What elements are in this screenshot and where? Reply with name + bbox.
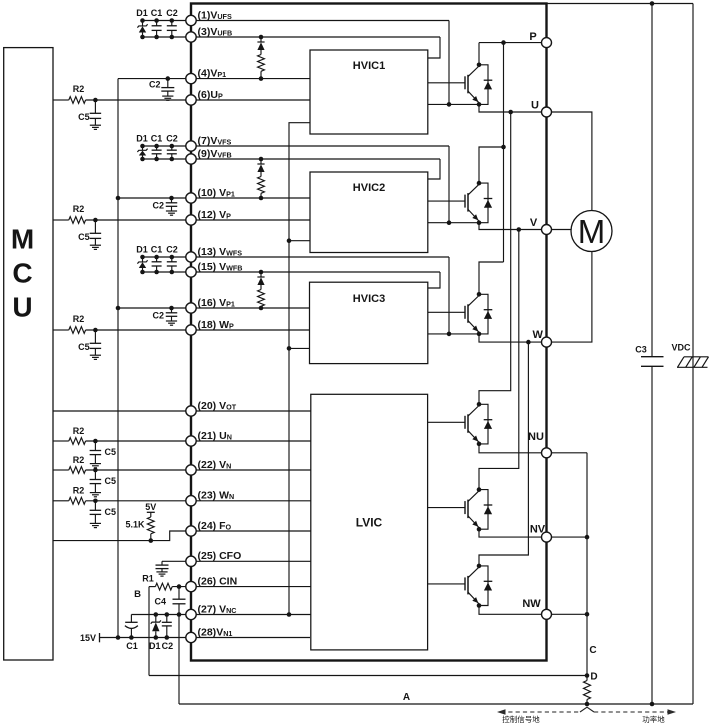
wire D row <box>149 675 587 677</box>
svg-text:功率地: 功率地 <box>642 714 665 724</box>
svg-text:R1: R1 <box>142 574 154 584</box>
diode DVL <box>479 490 488 530</box>
svg-text:R2: R2 <box>73 314 85 324</box>
resistor R2 row 441 <box>69 438 86 445</box>
wire C3 vertical upper <box>651 4 653 357</box>
capacitor C2 boot U <box>171 21 173 26</box>
capacitor C1 boot V <box>156 146 158 150</box>
node boot U x156.6 bottom <box>154 35 159 40</box>
svg-text:(9)VVFB: (9)VVFB <box>198 148 232 160</box>
wire VOT row <box>53 410 311 412</box>
wire V collector feed <box>479 147 504 183</box>
diode DVH <box>479 183 488 223</box>
diode DWH <box>479 294 488 334</box>
wire U low gate row <box>428 421 465 423</box>
wire U low collector feed <box>479 112 511 404</box>
pin 18 terminal <box>186 325 196 335</box>
svg-text:P: P <box>529 31 536 43</box>
pin 13 terminal <box>186 252 196 262</box>
node boot V x171.8 top <box>170 144 175 149</box>
svg-text:(23) WN: (23) WN <box>198 490 235 502</box>
svg-text:D1: D1 <box>149 641 161 651</box>
svg-text:NW: NW <box>522 598 541 610</box>
node P feed <box>501 40 506 45</box>
terminal NU <box>542 448 552 458</box>
pin 3 terminal <box>186 32 196 42</box>
node C2 pin10 <box>169 196 174 201</box>
wire V to motor <box>547 229 572 231</box>
node boot W x142.5 bottom <box>140 270 145 275</box>
svg-text:NU: NU <box>528 431 544 443</box>
svg-text:D1: D1 <box>136 245 148 255</box>
svg-text:(7)VVFS: (7)VVFS <box>198 135 232 147</box>
node boot V x171.8 bottom <box>170 157 175 162</box>
capacitor C4 <box>178 587 180 600</box>
terminal V <box>542 225 552 235</box>
node D <box>585 673 590 678</box>
wire U to motor <box>547 112 592 211</box>
node boot W x171.8 bottom <box>170 270 175 275</box>
node boot U x171.8 top <box>170 18 175 23</box>
MCU block <box>4 48 53 660</box>
resistor R2 row 500.8 <box>69 497 86 504</box>
node COM HVIC3 <box>287 346 292 351</box>
node boot V x156.6 top <box>154 144 159 149</box>
pin 7 terminal <box>186 141 196 151</box>
svg-text:(27) VNC: (27) VNC <box>198 603 237 615</box>
svg-text:C2: C2 <box>166 8 178 18</box>
node boot W x156.6 bottom <box>154 270 159 275</box>
capacitor C5 row 470 <box>94 470 96 480</box>
pin 27 terminal <box>186 609 196 619</box>
svg-text:D1: D1 <box>136 8 148 18</box>
wire W emitter row <box>428 333 479 335</box>
svg-text:C1: C1 <box>126 641 138 651</box>
svg-text:LVIC: LVIC <box>356 516 383 530</box>
diode+resistor bootstrap charge y37 <box>260 37 262 42</box>
diode DWL <box>479 566 488 606</box>
capacitor C2 boot V <box>171 146 173 150</box>
wire P row <box>479 42 547 44</box>
wire N sense row NU <box>547 452 588 454</box>
wire W collector feed <box>479 262 504 294</box>
node VNC COM rail <box>287 612 292 617</box>
wire COM stub HVIC3 <box>289 347 310 349</box>
wire VP1 rail <box>117 79 119 638</box>
pin 15 terminal <box>186 267 196 277</box>
svg-text:C: C <box>12 258 32 289</box>
pin 22 terminal <box>186 465 196 475</box>
node boot U x142.5 top <box>140 18 145 23</box>
svg-text:(26) CIN: (26) CIN <box>198 575 238 587</box>
wire U emitter to terminal <box>479 104 547 112</box>
wire W low collector feed <box>479 342 528 566</box>
wire VNC row <box>131 614 311 616</box>
pin 21 terminal <box>186 436 196 446</box>
resistor R2 row 220 <box>69 217 86 224</box>
node charge bottom y198 <box>259 196 264 201</box>
capacitor C2 boot W <box>171 257 173 262</box>
wire row y441 MCU to LVIC <box>53 440 69 442</box>
svg-text:C: C <box>589 645 596 656</box>
node charge top y272 <box>259 270 264 275</box>
diode DUH <box>479 65 488 105</box>
wire U FS drop <box>448 21 450 105</box>
diode DUL <box>479 404 488 444</box>
svg-text:HVIC1: HVIC1 <box>353 60 385 72</box>
svg-text:C1: C1 <box>151 134 163 144</box>
node R1 to C4 <box>177 584 182 589</box>
pin 28 terminal <box>186 632 196 642</box>
terminal P <box>542 38 552 48</box>
capacitor C1 polarized <box>130 615 132 623</box>
transistor QWH <box>464 306 466 319</box>
svg-text:A: A <box>403 692 410 703</box>
svg-text:C3: C3 <box>635 345 647 355</box>
node R2/C5 row 441 <box>93 439 98 444</box>
svg-text:(12) VP: (12) VP <box>198 209 232 221</box>
wire row y100 MCU to module <box>53 99 69 101</box>
node W output tap <box>526 340 531 345</box>
zener D1 bottom <box>155 615 157 623</box>
wire V low collector feed <box>479 230 519 490</box>
transistor QUH <box>464 76 466 89</box>
svg-text:D1: D1 <box>136 134 148 144</box>
svg-text:R2: R2 <box>73 455 85 465</box>
node R2/C5 row 100 <box>93 98 98 103</box>
diode+resistor bootstrap charge y272 <box>260 272 262 277</box>
op-amp U3 HVIC3 box <box>310 282 428 363</box>
svg-text:(15) VWFB: (15) VWFB <box>198 261 243 273</box>
pin 20 terminal <box>186 406 196 416</box>
capacitor C5 row 220 <box>94 220 96 233</box>
node charge top y159 <box>259 157 264 162</box>
svg-text:C2: C2 <box>152 311 164 321</box>
capacitor C2 pin4 <box>167 79 169 88</box>
wire VDC vertical <box>692 4 694 705</box>
svg-text:R2: R2 <box>73 486 85 496</box>
svg-text:C5: C5 <box>105 476 117 486</box>
svg-text:(4)VP1: (4)VP1 <box>198 67 227 79</box>
svg-text:(18) WP: (18) WP <box>198 319 235 331</box>
node boot V x142.5 bottom <box>140 157 145 162</box>
node C3 tap on P rail <box>650 1 655 6</box>
wire W FB loop <box>428 272 440 288</box>
node C2 pin16 <box>169 306 174 311</box>
node boot W x156.6 top <box>154 255 159 260</box>
ground split dashed <box>501 711 672 713</box>
svg-text:U: U <box>531 100 539 112</box>
wire motor to W <box>547 252 592 343</box>
transistor QWL <box>464 577 466 590</box>
wire VP1 pin16 row <box>118 307 310 309</box>
node C2 bottom2 <box>165 635 170 640</box>
op-amp U2 HVIC2 box <box>310 172 428 253</box>
wire row y330 MCU to module <box>53 329 69 331</box>
capacitor CFO to ground <box>161 561 163 565</box>
wire W FS drop <box>448 257 450 334</box>
node V output tap <box>517 227 522 232</box>
svg-text:C5: C5 <box>78 342 90 352</box>
node boot V x142.5 top <box>140 144 145 149</box>
wire U gate row <box>428 82 465 84</box>
svg-text:C5: C5 <box>105 447 117 457</box>
wire VP1 pin10 row <box>118 197 310 199</box>
transistor QUL <box>464 416 466 429</box>
resistor 5.1K <box>147 517 154 534</box>
terminal NV <box>542 532 552 542</box>
IPM module outline <box>191 4 547 661</box>
wire U FB loop <box>428 37 440 58</box>
wire U emitter row <box>428 103 479 105</box>
node shunt to A <box>585 702 590 707</box>
wire B vertical <box>148 587 150 676</box>
pin 16 terminal <box>186 303 196 313</box>
wire N sense vertical <box>586 453 588 676</box>
svg-text:(10) VP1: (10) VP1 <box>198 187 235 199</box>
wire V FB loop <box>428 159 440 179</box>
wire COM rail <box>289 123 310 615</box>
node VP1 pin10 <box>116 196 121 201</box>
capacitor C5 row 500.8 <box>94 501 96 511</box>
zener D1 boot U <box>142 21 144 26</box>
svg-text:M: M <box>578 213 606 250</box>
node boot W x171.8 top <box>170 255 175 260</box>
node VP1 pin16 <box>116 306 121 311</box>
svg-text:V: V <box>530 217 538 229</box>
node C4 bottom <box>177 612 182 617</box>
pin 1 terminal <box>186 15 196 25</box>
svg-text:控制信号地: 控制信号地 <box>502 714 540 724</box>
node W FS join <box>447 332 452 337</box>
wire NW extension <box>547 613 588 615</box>
node charge bottom y78.6 <box>259 76 264 81</box>
wire V low gate row <box>428 507 465 509</box>
zener D1 boot V <box>142 146 144 150</box>
wire U collector feed <box>478 43 480 65</box>
wire V FS drop <box>448 146 450 223</box>
node R2/C5 row 220 <box>93 218 98 223</box>
pin 12 terminal <box>186 215 196 225</box>
wire W FS rail <box>143 256 450 258</box>
svg-text:HVIC2: HVIC2 <box>353 182 385 194</box>
svg-text:C1: C1 <box>151 8 163 18</box>
resistor R2 row 330 <box>69 327 86 334</box>
wire W low emitter to terminal <box>479 606 547 615</box>
svg-text:C2: C2 <box>166 134 178 144</box>
node R2/C5 row 500.8 <box>93 499 98 504</box>
wire W emitter to terminal <box>479 334 547 342</box>
terminal NW <box>542 609 552 619</box>
svg-text:NV: NV <box>530 524 546 536</box>
op-amp U1 HVIC1 box <box>310 50 428 134</box>
svg-text:B: B <box>134 589 141 600</box>
capacitor C3 <box>641 356 664 358</box>
svg-text:C5: C5 <box>105 507 117 517</box>
node C3 to A <box>650 702 655 707</box>
wire V FS rail <box>143 145 450 147</box>
svg-text:(22) VN: (22) VN <box>198 459 232 471</box>
wire U low emitter to terminal <box>479 444 547 453</box>
wire W FB rail <box>143 271 441 273</box>
node C2 top <box>165 612 170 617</box>
svg-text:C1: C1 <box>151 245 163 255</box>
capacitor C5 row 330 <box>94 330 96 343</box>
wire V gate row <box>428 200 465 202</box>
wire V FB rail <box>143 158 441 160</box>
wire COM stub HVIC2 <box>289 240 310 242</box>
resistor R1 <box>155 583 172 590</box>
svg-text:(1)VUFS: (1)VUFS <box>198 9 232 21</box>
transistor QVH <box>464 195 466 208</box>
svg-text:C5: C5 <box>78 112 90 122</box>
svg-text:R2: R2 <box>73 204 85 214</box>
pin 6 terminal <box>186 95 196 105</box>
wire V emitter row <box>428 222 479 224</box>
svg-text:C2: C2 <box>152 201 164 211</box>
wire CIN row <box>149 586 155 588</box>
node R2/C5 row 470 <box>93 468 98 473</box>
svg-text:(21) UN: (21) UN <box>198 430 232 442</box>
pin 9 terminal <box>186 154 196 164</box>
node COM HVIC2 <box>287 238 292 243</box>
svg-text:U: U <box>12 292 32 323</box>
svg-text:(13) VWFS: (13) VWFS <box>198 246 243 258</box>
svg-text:(16) VP1: (16) VP1 <box>198 297 235 309</box>
wire FO jog <box>53 531 311 541</box>
capacitor C1 boot W <box>156 257 158 262</box>
node U output tap <box>508 110 513 115</box>
svg-text:(28)VN1: (28)VN1 <box>198 626 233 638</box>
node boot U x171.8 bottom <box>170 35 175 40</box>
wire U FS rail <box>143 20 450 22</box>
svg-text:VDC: VDC <box>671 343 691 353</box>
capacitor C5 row 100 <box>94 100 96 113</box>
pin 23 terminal <box>186 496 196 506</box>
wire row y470 MCU to LVIC <box>53 469 69 471</box>
transistor QVL <box>464 501 466 514</box>
pin 26 terminal <box>186 581 196 591</box>
node V FS join <box>447 220 452 225</box>
resistor R2 row 470 <box>69 467 86 474</box>
svg-text:5V: 5V <box>145 502 156 512</box>
svg-text:5.1K: 5.1K <box>125 520 145 530</box>
svg-text:M: M <box>11 224 34 255</box>
wire CFO row <box>162 560 311 562</box>
node charge top y37 <box>259 35 264 40</box>
node D1 bottom2 <box>154 635 159 640</box>
capacitor C1 boot U <box>156 21 158 26</box>
pin 24 terminal <box>186 526 196 536</box>
wire A vertical <box>178 615 180 705</box>
op-amp U4 LVIC box <box>311 394 428 650</box>
zener D1 boot W <box>142 257 144 262</box>
wire row y500.8 MCU to LVIC <box>53 500 69 502</box>
node boot U x156.6 top <box>154 18 159 23</box>
node R2/C5 row 330 <box>93 328 98 333</box>
motor M <box>571 211 612 252</box>
capacitor C5 row 441 <box>94 441 96 451</box>
pin 25 terminal <box>186 556 196 566</box>
svg-text:C5: C5 <box>78 232 90 242</box>
node C1 bottom <box>129 635 134 640</box>
wire U FB rail <box>143 36 441 38</box>
wire 15V row <box>100 637 311 639</box>
wire row y220 MCU to module <box>53 219 69 221</box>
svg-text:R2: R2 <box>73 426 85 436</box>
node 5.1K bottom <box>149 538 154 543</box>
node boot V x156.6 bottom <box>154 157 159 162</box>
wire P rail to VDC <box>547 3 694 5</box>
node D1 top <box>154 612 159 617</box>
diode+resistor bootstrap charge y159 <box>260 159 262 164</box>
node C2 pin4 <box>166 76 171 81</box>
wire V low emitter to terminal <box>479 529 547 537</box>
node charge bottom y308 <box>259 306 264 311</box>
wire V emitter to terminal <box>479 223 547 230</box>
terminal W <box>542 337 552 347</box>
supply 5V tick <box>147 511 155 513</box>
wire A row <box>179 703 693 705</box>
svg-text:(20) VOT: (20) VOT <box>198 400 237 412</box>
svg-text:HVIC3: HVIC3 <box>353 293 385 305</box>
node U FS join <box>447 102 452 107</box>
node NV sense <box>585 535 590 540</box>
svg-text:(6)UP: (6)UP <box>198 89 223 101</box>
capacitor C2 bottom <box>166 615 168 623</box>
node VP1 rail join <box>116 635 121 640</box>
capacitor C2 pin10 <box>171 198 173 203</box>
wire VP1 pin4 row <box>118 78 310 80</box>
svg-text:(24) FO: (24) FO <box>198 520 232 532</box>
svg-text:C2: C2 <box>162 641 174 651</box>
node boot U x142.5 bottom <box>140 35 145 40</box>
svg-text:D: D <box>590 672 597 683</box>
resistor R2 row 100 <box>69 97 86 104</box>
wire NV extension <box>547 536 588 538</box>
wire W gate row <box>428 311 465 313</box>
pin 10 terminal <box>186 193 196 203</box>
wire P feed rail <box>503 43 505 262</box>
svg-text:C4: C4 <box>154 597 166 607</box>
svg-text:15V: 15V <box>80 633 96 643</box>
supply 15V tick <box>99 633 101 642</box>
svg-text:C2: C2 <box>149 80 161 90</box>
ground hatch VDC <box>677 366 708 368</box>
svg-text:W: W <box>533 329 544 341</box>
svg-text:(25) CFO: (25) CFO <box>198 550 242 562</box>
node V feed <box>501 145 506 150</box>
svg-text:C2: C2 <box>166 245 178 255</box>
node NW sense <box>585 612 590 617</box>
resistor shunt <box>586 676 588 681</box>
capacitor C2 pin16 <box>171 308 173 313</box>
node boot W x142.5 top <box>140 255 145 260</box>
svg-text:(3)VUFB: (3)VUFB <box>198 26 233 38</box>
wire W low gate row <box>428 583 465 585</box>
pin 4 terminal <box>186 73 196 83</box>
svg-text:R2: R2 <box>73 84 85 94</box>
terminal U <box>542 107 552 117</box>
